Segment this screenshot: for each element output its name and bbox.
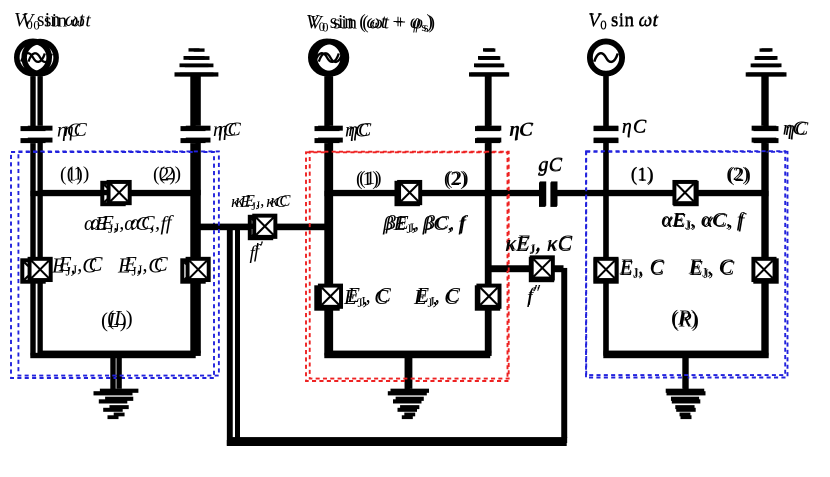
wire source-to-cap R bbox=[603, 76, 608, 126]
loop R right wire bbox=[763, 194, 768, 356]
ground top M bbox=[469, 48, 508, 76]
wire ground-to-cap L bbox=[190, 76, 195, 126]
wire coupler f' drop (copy 1) bbox=[227, 225, 233, 445]
capacitor etaC L right bbox=[181, 126, 206, 143]
wire source-to-cap L bbox=[30, 76, 35, 126]
wire cap-to-loop M right bbox=[485, 143, 490, 193]
loop R left wire bbox=[603, 194, 608, 356]
wire ground-to-cap M bbox=[485, 76, 490, 126]
wire M-to-gC bbox=[488, 191, 540, 196]
dashed box R (blue) bbox=[586, 152, 788, 378]
wire loop-to-ground R bbox=[683, 356, 688, 392]
wire bottom long bbox=[227, 440, 567, 446]
capacitor etaC R left bbox=[594, 126, 619, 143]
wire coupler f'' drop bbox=[561, 270, 567, 442]
junction kappa f'' bbox=[531, 259, 552, 280]
junction top M bbox=[397, 183, 418, 204]
wire loop-to-ground L bbox=[110, 356, 115, 392]
loop L bottom wire bbox=[30, 353, 195, 358]
wire cap-to-loop L right bbox=[190, 143, 195, 193]
junction top L bbox=[102, 183, 123, 204]
wire cap-to-loop M left bbox=[324, 143, 329, 193]
capacitor etaC M left bbox=[315, 126, 340, 143]
wire coupler f' horizontal bbox=[193, 225, 327, 230]
wire ground-to-cap R bbox=[763, 76, 768, 126]
wire source-to-cap M bbox=[324, 76, 329, 126]
ground bottom M bbox=[388, 391, 427, 419]
junction right L bbox=[182, 260, 203, 281]
wire cap-to-loop L left bbox=[30, 143, 35, 193]
junction left M bbox=[316, 287, 337, 308]
wire loop-to-ground M bbox=[405, 356, 410, 392]
voltage source VR bbox=[590, 41, 622, 73]
junction right R bbox=[755, 260, 776, 281]
wire coupler f'' horizontal bbox=[488, 267, 564, 272]
loop M left wire bbox=[324, 194, 329, 356]
loop L left wire bbox=[30, 194, 35, 356]
loop M right wire bbox=[485, 194, 490, 356]
junction top R bbox=[675, 183, 696, 204]
loop M top wire bbox=[324, 191, 490, 196]
loop L top wire bbox=[30, 191, 195, 196]
voltage source VL bbox=[17, 41, 49, 73]
ground top L bbox=[175, 48, 214, 76]
ground bottom L bbox=[94, 391, 133, 419]
capacitor etaC R right bbox=[754, 126, 779, 143]
capacitor etaC L left bbox=[21, 126, 46, 143]
junction left R bbox=[595, 260, 616, 281]
voltage source VM bbox=[311, 41, 343, 73]
capacitor gC bbox=[539, 182, 557, 207]
loop M bottom wire bbox=[324, 353, 490, 358]
dashed box L (blue) bbox=[11, 152, 214, 378]
wire coupler f' drop (copy 2 ghost) bbox=[235, 225, 240, 445]
wire cap-to-loop R right bbox=[763, 143, 768, 193]
junction left L bbox=[22, 260, 43, 281]
loop L right wire bbox=[190, 194, 195, 356]
ground bottom R bbox=[667, 391, 706, 419]
dashed box M (red) bbox=[306, 152, 508, 381]
capacitor etaC M right bbox=[475, 126, 500, 143]
loop R bottom wire bbox=[603, 353, 768, 358]
junction kappa f' bbox=[250, 217, 271, 238]
junction right M bbox=[477, 287, 498, 308]
loop R top wire bbox=[603, 191, 768, 196]
wire cap-to-loop R left bbox=[603, 143, 608, 193]
ground top R bbox=[748, 48, 787, 76]
wire gC-to-R bbox=[557, 191, 606, 196]
